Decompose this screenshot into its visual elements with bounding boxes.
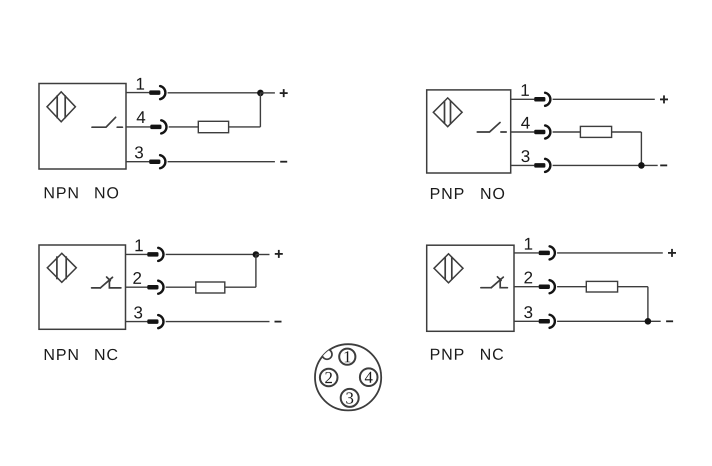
pin label 3 TL: [135, 146, 143, 158]
pin label 3 TR: [521, 150, 529, 162]
wire pin4 TL from box: [126, 126, 151, 128]
sensor logo diamond TR: [433, 98, 462, 127]
sensor logo diamond BL: [47, 253, 76, 282]
wire pin2 BL from box: [126, 286, 148, 288]
connector plug pin4 TR: [534, 125, 550, 138]
NC switch contact BR: [481, 277, 508, 288]
load resistor BL: [196, 282, 225, 293]
pin label 4 TL: [137, 111, 146, 123]
wire pin1 TL to junction: [168, 92, 261, 94]
wire vertical link TL: [259, 93, 261, 127]
wire pin4 TR from box: [511, 131, 535, 133]
connector plug pin3 TR: [534, 159, 550, 172]
wire pin3 BL from box: [126, 321, 148, 323]
NO switch contact TL: [92, 117, 122, 127]
wire pin3 BR from box: [514, 320, 539, 322]
connector plug pin3 BL: [147, 315, 163, 328]
pin label 4 TR: [521, 117, 530, 129]
NO switch contact TR: [477, 123, 506, 133]
keyway notch: [322, 349, 332, 359]
connector plug pin4 TL: [150, 120, 166, 133]
wire pin1 TL from box: [126, 92, 149, 94]
minus terminal BL: [275, 321, 282, 323]
plus terminal BR: [668, 249, 676, 257]
wire resistor to corner TR: [612, 131, 642, 133]
connector plug pin1 BR: [539, 246, 555, 259]
pin label 1 TR: [522, 84, 529, 96]
wire pin1 BR to plus: [557, 252, 663, 254]
connector plug pin3 BR: [539, 315, 555, 328]
wire pin2 BL to resistor: [166, 286, 196, 288]
wire pin3 TR to minus: [553, 164, 658, 166]
connector plug pin1 TR: [534, 93, 550, 106]
label NPN NO: [45, 187, 54, 198]
wire pin1 TR to plus: [553, 98, 655, 100]
connector plug pin3 TL: [149, 155, 165, 168]
load resistor TR: [580, 126, 611, 137]
wire junction to plus BL: [256, 254, 270, 256]
wire pin2 BR to resistor: [557, 286, 586, 288]
pin 1 circled: [339, 349, 355, 365]
wire resistor to corner BR: [618, 286, 648, 288]
sensor logo diamond BR: [434, 254, 463, 283]
connector plug pin2 BR: [539, 280, 555, 293]
wire resistor to corner BL: [225, 286, 256, 288]
NC switch contact BL: [92, 277, 121, 288]
pin label 1 TL: [137, 78, 144, 90]
pin 3 circled: [341, 389, 359, 407]
plus terminal TL: [280, 89, 288, 97]
plus terminal TR: [660, 95, 668, 103]
sensor box PNP NC: [427, 245, 514, 331]
pin label 3 BR: [524, 306, 532, 318]
minus terminal TL: [280, 161, 287, 163]
pin 2 circled: [320, 369, 338, 387]
wire vertical link TR: [640, 132, 642, 165]
sensor box PNP NO: [427, 90, 511, 173]
sensor logo diamond TL: [47, 92, 75, 122]
label PNP NO: [431, 188, 440, 199]
pin label 2 BR: [524, 272, 532, 284]
label NPN NC: [45, 349, 54, 360]
wire pin2 BR from box: [514, 286, 539, 288]
junction dot BL: [253, 251, 260, 258]
wire pin1 BR from box: [514, 252, 539, 254]
wire resistor to corner TL: [229, 126, 261, 128]
junction dot TR: [638, 162, 645, 169]
pin label 1 BL: [135, 240, 142, 252]
wire pin4 TR to resistor: [553, 131, 581, 133]
plus terminal BL: [275, 250, 283, 258]
connector plug pin1 BL: [147, 248, 163, 261]
junction dot TL: [257, 90, 264, 97]
load resistor BR: [586, 281, 617, 292]
connector face circle: [315, 344, 381, 410]
wire pin3 TL to minus: [168, 161, 275, 163]
wire pin4 TL to resistor: [169, 126, 199, 128]
pin label 2 BL: [133, 272, 141, 284]
wire pin3 TL from box: [126, 161, 149, 163]
sensor box NPN NO: [39, 84, 126, 170]
wire junction to plus TL: [260, 92, 275, 94]
connector plug pin2 BL: [147, 281, 163, 294]
minus terminal BR: [666, 320, 673, 322]
junction dot BR: [645, 318, 652, 325]
wire pin3 BR to minus: [557, 320, 661, 322]
sensor box NPN NC: [39, 245, 126, 329]
wire pin3 BL to minus: [166, 321, 270, 323]
label PNP NC: [431, 349, 440, 360]
wire pin1 TR from box: [511, 98, 535, 100]
wire pin1 BL from box: [126, 253, 148, 255]
pin label 1 BR: [525, 238, 532, 250]
wire pin3 TR from box: [511, 164, 535, 166]
wire vertical link BL: [255, 255, 257, 288]
wire vertical link BR: [647, 287, 649, 322]
pin 4 circled: [360, 368, 378, 386]
wire pin1 BL to junction: [166, 253, 256, 255]
load resistor TL: [198, 121, 228, 132]
connector plug pin1 TL: [149, 86, 165, 99]
minus terminal TR: [660, 164, 667, 166]
pin label 3 BL: [134, 306, 142, 318]
